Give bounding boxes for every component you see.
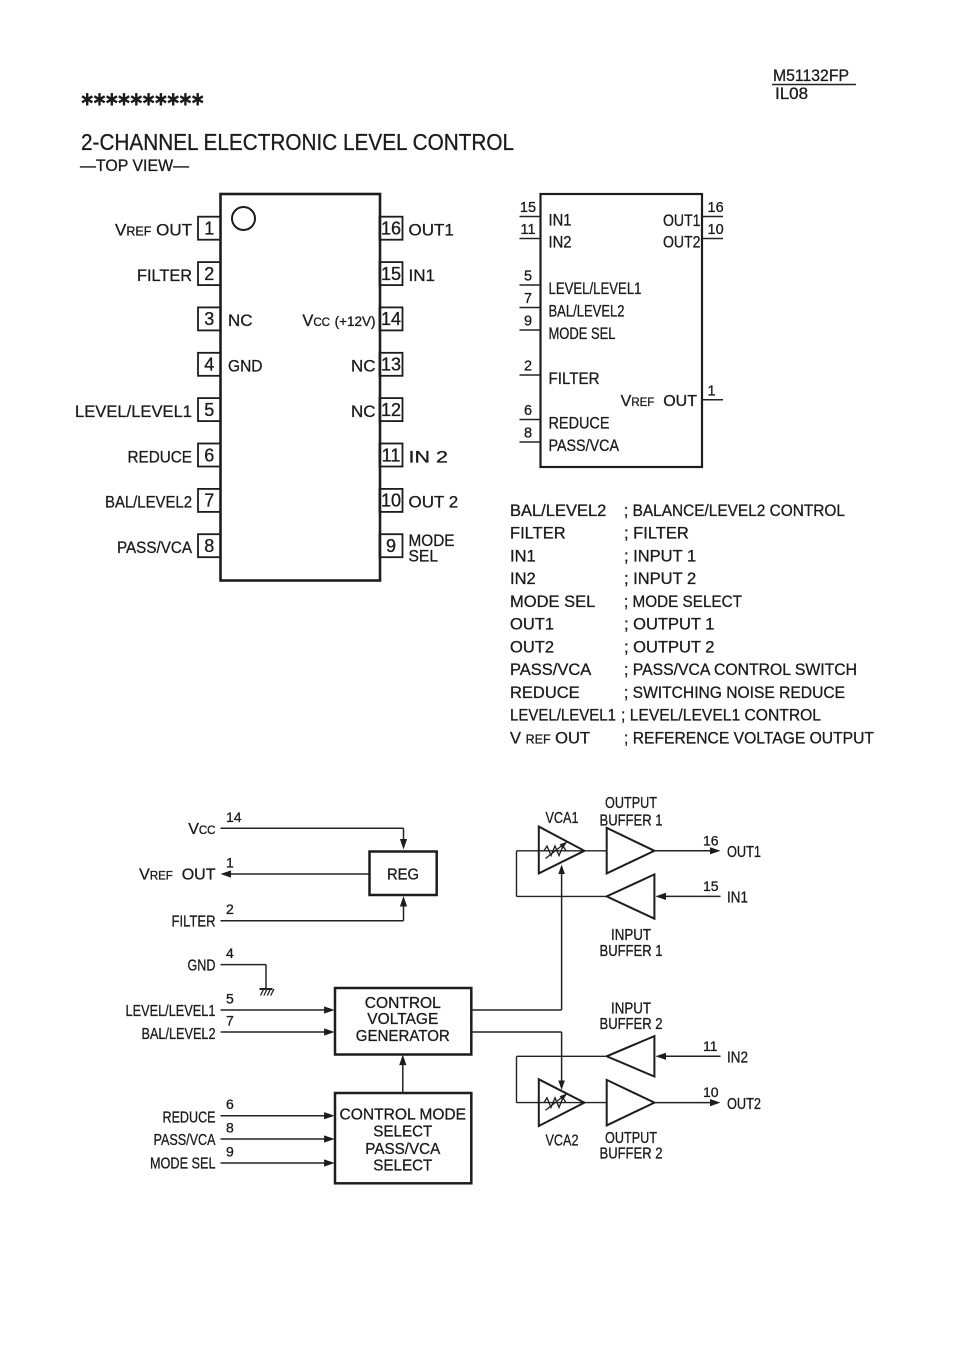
svg-text:7: 7 <box>204 491 214 511</box>
svg-text:LEVEL/LEVEL1: LEVEL/LEVEL1 <box>126 1003 216 1020</box>
svg-text:9: 9 <box>226 1144 234 1160</box>
svg-text:3: 3 <box>204 309 214 329</box>
svg-text:VCA2: VCA2 <box>546 1133 579 1150</box>
svg-text:10: 10 <box>708 222 724 238</box>
svg-text:15: 15 <box>520 200 536 216</box>
svg-text:VCC: VCC <box>188 821 215 838</box>
svg-text:NC: NC <box>351 357 376 376</box>
svg-text:VCC (+12V): VCC (+12V) <box>302 312 375 330</box>
svg-text:; SWITCHING NOISE REDUCE: ; SWITCHING NOISE REDUCE <box>624 684 845 702</box>
svg-text:16: 16 <box>703 832 719 848</box>
svg-text:OUT1: OUT1 <box>663 211 701 230</box>
svg-text:PASS/VCA: PASS/VCA <box>154 1132 217 1149</box>
svg-text:REDUCE: REDUCE <box>549 414 610 433</box>
svg-text:5: 5 <box>524 269 532 285</box>
svg-text:BUFFER 2: BUFFER 2 <box>600 1016 663 1033</box>
svg-text:15: 15 <box>703 878 719 894</box>
svg-text:REDUCE: REDUCE <box>163 1110 216 1127</box>
svg-text:6: 6 <box>204 445 214 465</box>
svg-text:VREF OUT: VREF OUT <box>621 393 698 410</box>
svg-text:14: 14 <box>226 809 242 825</box>
svg-text:INPUT: INPUT <box>611 927 651 944</box>
svg-text:LEVEL/LEVEL1: LEVEL/LEVEL1 <box>510 707 616 725</box>
svg-text:5: 5 <box>226 991 234 1007</box>
svg-text:; INPUT 2: ; INPUT 2 <box>624 570 696 588</box>
svg-text:MODE SEL: MODE SEL <box>150 1156 216 1173</box>
svg-text:2: 2 <box>524 359 532 375</box>
svg-text:11: 11 <box>520 222 535 238</box>
svg-text:IN1: IN1 <box>727 890 748 907</box>
svg-text:14: 14 <box>381 309 401 329</box>
svg-text:NC: NC <box>351 402 376 421</box>
svg-text:PASS/VCA: PASS/VCA <box>365 1141 440 1158</box>
svg-text:1: 1 <box>708 383 716 399</box>
svg-text:GENERATOR: GENERATOR <box>356 1028 450 1045</box>
svg-text:7: 7 <box>524 291 532 307</box>
svg-text:; PASS/VCA CONTROL SWITCH: ; PASS/VCA CONTROL SWITCH <box>624 661 857 679</box>
svg-text:; LEVEL/LEVEL1 CONTROL: ; LEVEL/LEVEL1 CONTROL <box>621 707 821 725</box>
svg-text:REDUCE: REDUCE <box>128 447 193 466</box>
svg-text:OUT1: OUT1 <box>409 221 454 240</box>
svg-text:; OUTPUT 1: ; OUTPUT 1 <box>624 616 714 634</box>
svg-text:16: 16 <box>381 219 401 239</box>
svg-text:SEL: SEL <box>409 547 439 566</box>
svg-text:; INPUT 1: ; INPUT 1 <box>624 547 696 565</box>
svg-text:OUT1: OUT1 <box>510 616 554 634</box>
svg-text:IN2: IN2 <box>549 233 572 252</box>
svg-text:16: 16 <box>708 200 724 216</box>
svg-text:BAL/LEVEL2: BAL/LEVEL2 <box>142 1026 216 1043</box>
svg-text:12: 12 <box>381 400 401 420</box>
svg-text:SELECT: SELECT <box>373 1124 432 1141</box>
svg-text:; BALANCE/LEVEL2 CONTROL: ; BALANCE/LEVEL2 CONTROL <box>624 502 845 520</box>
svg-text:11: 11 <box>382 445 401 465</box>
svg-text:1: 1 <box>226 855 234 871</box>
svg-text:4: 4 <box>204 355 214 375</box>
svg-text:OUT2: OUT2 <box>663 233 701 252</box>
svg-text:REG: REG <box>387 866 419 883</box>
svg-text:10: 10 <box>703 1084 719 1100</box>
svg-text:5: 5 <box>204 400 214 420</box>
svg-text:FILTER: FILTER <box>137 266 192 285</box>
svg-text:VOLTAGE: VOLTAGE <box>367 1011 438 1028</box>
svg-text:CONTROL MODE: CONTROL MODE <box>340 1106 467 1123</box>
svg-text:IN 2: IN 2 <box>409 447 449 466</box>
svg-text:8: 8 <box>524 426 532 442</box>
svg-text:BAL/LEVEL2: BAL/LEVEL2 <box>105 493 192 512</box>
svg-text:V REF OUT: V REF OUT <box>510 730 590 748</box>
svg-text:15: 15 <box>381 264 401 284</box>
svg-text:2: 2 <box>226 901 234 917</box>
svg-text:LEVEL/LEVEL1: LEVEL/LEVEL1 <box>549 279 642 298</box>
svg-text:BAL/LEVEL2: BAL/LEVEL2 <box>510 502 606 520</box>
svg-text:13: 13 <box>381 355 401 375</box>
svg-text:MODE SEL: MODE SEL <box>549 324 616 343</box>
svg-text:PASS/VCA: PASS/VCA <box>117 538 193 557</box>
svg-text:4: 4 <box>226 945 234 961</box>
svg-text:OUT2: OUT2 <box>510 638 554 656</box>
svg-text:OUT2: OUT2 <box>727 1096 761 1113</box>
svg-text:IL08: IL08 <box>775 84 808 103</box>
svg-text:SELECT: SELECT <box>373 1158 432 1175</box>
svg-text:8: 8 <box>226 1120 234 1136</box>
svg-text:IN2: IN2 <box>727 1050 748 1067</box>
svg-text:1: 1 <box>204 219 214 239</box>
svg-text:LEVEL/LEVEL1: LEVEL/LEVEL1 <box>75 402 192 421</box>
svg-text:OUT 2: OUT 2 <box>409 493 459 512</box>
svg-text:—TOP VIEW—: —TOP VIEW— <box>80 157 189 175</box>
svg-text:CONTROL: CONTROL <box>365 995 441 1012</box>
svg-text:6: 6 <box>524 403 532 419</box>
svg-text:2: 2 <box>204 264 214 284</box>
svg-text:OUT1: OUT1 <box>727 844 761 861</box>
svg-text:FILTER: FILTER <box>172 914 216 931</box>
svg-text:REDUCE: REDUCE <box>510 684 580 702</box>
svg-text:BUFFER 1: BUFFER 1 <box>600 813 663 830</box>
svg-text:FILTER: FILTER <box>549 369 600 388</box>
svg-text:PASS/VCA: PASS/VCA <box>549 436 620 455</box>
svg-text:8: 8 <box>204 536 214 556</box>
svg-text:; REFERENCE VOLTAGE OUTPUT: ; REFERENCE VOLTAGE OUTPUT <box>624 730 874 748</box>
svg-text:IN1: IN1 <box>549 211 572 230</box>
svg-text:; OUTPUT 2: ; OUTPUT 2 <box>624 638 714 656</box>
svg-text:BAL/LEVEL2: BAL/LEVEL2 <box>549 302 625 321</box>
svg-text:GND: GND <box>188 958 216 975</box>
svg-text:VCA1: VCA1 <box>546 810 579 827</box>
svg-text:GND: GND <box>228 357 263 376</box>
svg-text:MODE SEL: MODE SEL <box>510 593 595 611</box>
svg-text:11: 11 <box>703 1038 718 1054</box>
svg-text:INPUT: INPUT <box>611 1000 651 1017</box>
svg-text:OUTPUT: OUTPUT <box>605 1130 657 1147</box>
svg-text:PASS/VCA: PASS/VCA <box>510 661 591 679</box>
svg-text:10: 10 <box>381 491 401 511</box>
svg-text:9: 9 <box>386 536 396 556</box>
svg-text:IN1: IN1 <box>409 266 435 285</box>
svg-text:7: 7 <box>226 1013 234 1029</box>
svg-text:BUFFER 1: BUFFER 1 <box>600 943 663 960</box>
svg-text:9: 9 <box>524 314 532 330</box>
svg-text:NC: NC <box>228 311 253 330</box>
svg-text:2-CHANNEL ELECTRONIC LEVEL CON: 2-CHANNEL ELECTRONIC LEVEL CONTROL <box>81 129 514 155</box>
svg-text:; MODE SELECT: ; MODE SELECT <box>624 593 742 611</box>
svg-text:OUTPUT: OUTPUT <box>605 795 657 812</box>
svg-text:IN1: IN1 <box>510 547 536 565</box>
svg-text:6: 6 <box>226 1096 234 1112</box>
svg-text:IN2: IN2 <box>510 570 536 588</box>
svg-text:M51132FP: M51132FP <box>773 66 849 85</box>
svg-text:; FILTER: ; FILTER <box>624 525 689 543</box>
svg-text:BUFFER 2: BUFFER 2 <box>600 1146 663 1163</box>
svg-text:VREF OUT: VREF OUT <box>115 221 192 240</box>
svg-text:FILTER: FILTER <box>510 525 566 543</box>
svg-text:VREF OUT: VREF OUT <box>139 867 216 884</box>
